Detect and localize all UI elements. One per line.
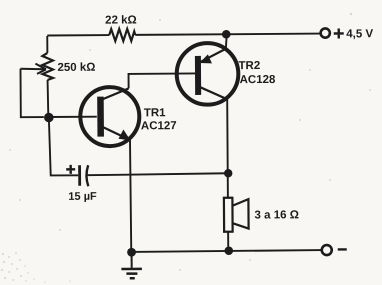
TR1 collector stroke	[102, 88, 129, 99]
speaker LS1 frame	[224, 198, 233, 232]
wire speaker to bottom rail	[227, 232, 229, 251]
wire wiper to base node	[20, 69, 43, 118]
speaker LS1 cone	[232, 199, 248, 229]
node junction dot top (TR2 emitter tap)	[222, 30, 231, 39]
node junction dot capacitor to collector	[224, 169, 232, 177]
terminal +4,5 V	[321, 28, 330, 37]
TR2 collector stroke	[200, 87, 228, 100]
plus sign supply	[334, 28, 344, 38]
wire base node to TR1 base	[48, 116, 97, 118]
TR1 base bar	[97, 97, 104, 137]
wire base node down to capacitor	[49, 117, 78, 176]
TR2 base bar	[195, 56, 201, 95]
transistor Q1 TR1 circle	[80, 87, 139, 146]
resistor R1 22 kΩ	[109, 29, 135, 41]
wire TR2 collector down to speaker	[226, 99, 229, 197]
TR1 emitter stroke with arrow	[102, 126, 127, 138]
wire TR1 emitter down to ground node	[130, 139, 131, 252]
node junction dot bottom speaker	[224, 246, 233, 255]
wire capacitor to collector node	[87, 173, 228, 175]
terminal −	[322, 245, 332, 255]
svg-text:3 a 16 Ω: 3 a 16 Ω	[254, 209, 298, 221]
potentiometer R2 250 kΩ zigzag	[42, 53, 53, 80]
svg-text:AC127: AC127	[141, 120, 177, 132]
svg-text:TR1: TR1	[144, 107, 166, 119]
svg-text:15 µF: 15 µF	[68, 191, 97, 203]
node junction dot ground	[127, 248, 136, 257]
svg-text:250 kΩ: 250 kΩ	[57, 62, 95, 74]
svg-text:AC128: AC128	[240, 74, 276, 86]
wire top rail right segment	[135, 34, 320, 35]
wire TR2 emitter up to rail	[226, 34, 227, 49]
svg-text:4,5 V: 4,5 V	[346, 28, 373, 40]
wire bottom rail	[132, 250, 322, 252]
ground stem	[131, 252, 133, 267]
transistor Q2 TR2 circle	[177, 43, 239, 105]
potentiometer wiper arrow	[20, 68, 44, 71]
TR2 emitter stroke with arrow (PNP)	[200, 49, 226, 62]
wire top rail	[47, 34, 109, 36]
wire TR1 collector to TR2 base	[129, 73, 196, 88]
capacitor C1 negative plate	[86, 165, 88, 186]
wire pot bottom to base node	[47, 80, 50, 117]
minus sign	[338, 248, 347, 250]
svg-text:TR2: TR2	[238, 60, 260, 72]
svg-text:22 kΩ: 22 kΩ	[105, 14, 137, 26]
capacitor C1 plus sign	[66, 165, 75, 174]
capacitor C1 15 µF positive plate	[78, 165, 81, 186]
ground symbol	[121, 269, 142, 278]
node junction dot base of TR1	[44, 113, 54, 123]
wire top rail left segment	[46, 36, 48, 53]
